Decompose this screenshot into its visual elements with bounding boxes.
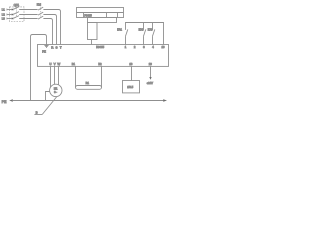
svg-text:3: 3 xyxy=(143,45,145,49)
wire U to motor xyxy=(50,67,52,88)
svg-text:4: 4 xyxy=(152,45,154,49)
node L1 xyxy=(2,8,7,12)
svg-text:L3: L3 xyxy=(2,17,5,21)
svg-text:B1: B1 xyxy=(72,62,76,66)
arrow PE left xyxy=(9,99,13,102)
svg-text:20: 20 xyxy=(149,62,152,66)
svg-text:3~: 3~ xyxy=(54,91,57,94)
svg-text:W: W xyxy=(57,62,60,66)
node L2 xyxy=(2,13,7,17)
wire W to motor xyxy=(58,67,60,86)
wire L2 in xyxy=(7,14,12,16)
wire L1 to T terminal xyxy=(43,10,60,45)
wire motor frame to PE bus xyxy=(46,92,50,101)
svg-text:PI485: PI485 xyxy=(84,14,92,18)
wire node 19 to signal box xyxy=(131,67,133,81)
wire L2 to S terminal xyxy=(43,15,56,45)
callout B leader xyxy=(34,97,56,115)
signal box 1/0.5 xyxy=(123,81,140,93)
arrow PE right xyxy=(163,99,167,102)
wire L1 QF1 to KM xyxy=(19,9,37,11)
resistor R1 xyxy=(76,81,102,89)
wire L3 in xyxy=(7,18,12,20)
svg-text:+24V: +24V xyxy=(147,81,154,85)
svg-text:R1: R1 xyxy=(86,81,90,85)
svg-text:L1: L1 xyxy=(2,8,5,12)
svg-text:2: 2 xyxy=(134,45,136,49)
comm module PI485 xyxy=(77,8,124,18)
svg-text:T: T xyxy=(60,45,62,49)
wire L3 to R terminal xyxy=(43,19,52,45)
inverter U1 main box xyxy=(38,45,169,67)
arrow +24V xyxy=(149,77,151,80)
svg-text:19: 19 xyxy=(129,62,132,66)
relay contact KA1 xyxy=(117,29,128,45)
wire L1 in xyxy=(7,9,12,11)
svg-text:10: 10 xyxy=(162,45,165,49)
svg-text:S: S xyxy=(56,45,58,49)
relay contact KA3 xyxy=(148,23,155,45)
breaker QF1 xyxy=(10,3,25,21)
svg-text:1: 1 xyxy=(125,45,127,49)
svg-text:PE: PE xyxy=(42,49,46,53)
wire B1 to resistor xyxy=(75,67,77,88)
svg-text:L2: L2 xyxy=(2,13,5,17)
wire L3 QF1 to KM xyxy=(19,18,37,20)
contactor KM xyxy=(37,3,43,20)
comm module lower tier xyxy=(88,18,117,23)
svg-text:KM: KM xyxy=(37,3,42,7)
ground symbol PE terminal xyxy=(44,46,48,48)
wire KA common bus to node 10 xyxy=(126,23,164,45)
wire PE loop to inverter ground xyxy=(31,35,47,101)
wire L2 QF1 to KM xyxy=(19,14,37,16)
svg-text:B2: B2 xyxy=(98,62,102,66)
svg-text:U: U xyxy=(49,62,51,66)
wire PE bus xyxy=(13,100,164,102)
wire V to motor xyxy=(54,67,56,85)
wire node 20 to +24V xyxy=(150,67,152,78)
svg-text:RS485: RS485 xyxy=(96,45,104,49)
wire B2 to resistor xyxy=(101,67,103,88)
svg-text:PE: PE xyxy=(2,100,7,104)
comm module connector xyxy=(88,23,98,40)
svg-text:B: B xyxy=(36,111,38,115)
node L3 xyxy=(2,17,7,21)
svg-text:V: V xyxy=(54,62,56,66)
svg-text:R: R xyxy=(51,45,54,49)
svg-text:1/0.5: 1/0.5 xyxy=(127,85,133,89)
motor M1 xyxy=(50,84,62,96)
relay contact KA2 xyxy=(139,23,146,45)
svg-text:KA1: KA1 xyxy=(117,29,122,32)
wire connector to RS485 port xyxy=(91,40,93,45)
